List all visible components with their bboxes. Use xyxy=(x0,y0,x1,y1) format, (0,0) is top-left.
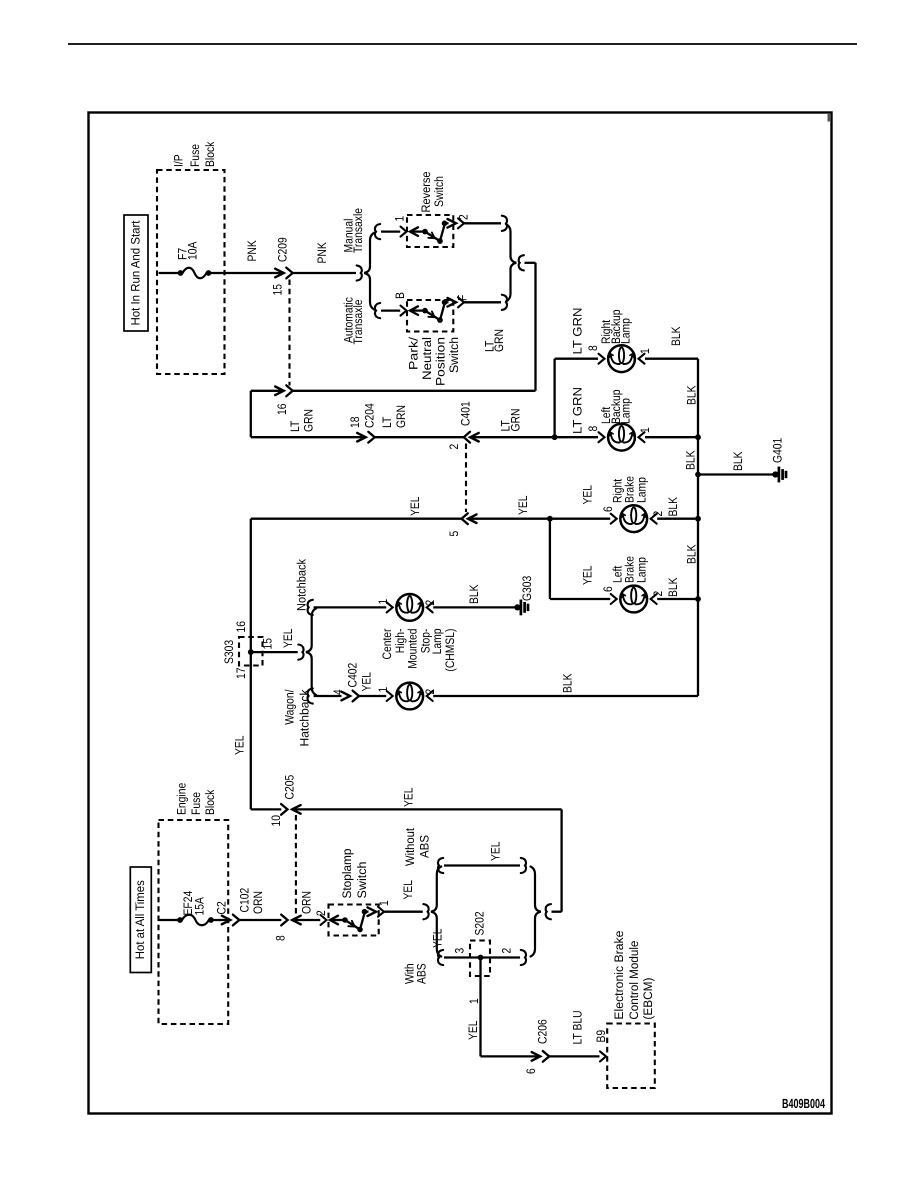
svg-text:YEL: YEL xyxy=(281,628,295,648)
svg-text:1: 1 xyxy=(376,687,390,693)
svg-text:Lamp: Lamp xyxy=(430,628,444,654)
svg-text:Lamp: Lamp xyxy=(619,398,633,424)
svg-text:B409B004: B409B004 xyxy=(782,1096,825,1111)
svg-text:1: 1 xyxy=(393,216,407,222)
svg-text:YEL: YEL xyxy=(581,565,595,585)
svg-text:Park/: Park/ xyxy=(407,336,421,370)
svg-text:2: 2 xyxy=(423,689,437,695)
svg-text:1: 1 xyxy=(467,998,481,1004)
svg-text:Hot In Run And Start: Hot In Run And Start xyxy=(129,220,143,326)
svg-text:YEL: YEL xyxy=(581,485,595,505)
svg-text:YEL: YEL xyxy=(408,496,422,516)
svg-text:6: 6 xyxy=(601,586,615,592)
svg-text:Lamp: Lamp xyxy=(635,557,649,583)
svg-text:G401: G401 xyxy=(771,438,785,463)
svg-text:GRN: GRN xyxy=(509,409,523,432)
svg-text:15: 15 xyxy=(271,284,285,296)
svg-text:Switch: Switch xyxy=(447,337,461,373)
svg-text:Neutral: Neutral xyxy=(420,337,434,380)
svg-text:BLK: BLK xyxy=(669,326,683,346)
svg-text:Control Module: Control Module xyxy=(627,940,641,1019)
svg-text:PNK: PNK xyxy=(245,240,259,262)
svg-text:Without: Without xyxy=(403,827,417,866)
svg-text:C102: C102 xyxy=(238,888,252,913)
svg-text:BLK: BLK xyxy=(666,496,680,516)
svg-text:PNK: PNK xyxy=(315,242,329,264)
svg-text:Switch: Switch xyxy=(355,861,369,898)
svg-text:Lamp: Lamp xyxy=(635,477,649,503)
svg-text:C206: C206 xyxy=(536,1019,550,1044)
svg-text:2: 2 xyxy=(423,600,437,606)
svg-text:Block: Block xyxy=(203,789,217,815)
svg-text:BLK: BLK xyxy=(561,673,575,693)
svg-text:Stoplamp: Stoplamp xyxy=(340,848,354,898)
svg-text:(EBCM): (EBCM) xyxy=(641,978,655,1020)
svg-text:8: 8 xyxy=(586,426,600,432)
svg-text:GRN: GRN xyxy=(302,409,316,432)
svg-text:ORN: ORN xyxy=(251,891,265,914)
svg-text:I/P: I/P xyxy=(172,154,186,167)
svg-text:S202: S202 xyxy=(473,911,487,935)
svg-text:Center: Center xyxy=(380,629,394,660)
svg-text:15A: 15A xyxy=(193,896,207,915)
svg-text:17: 17 xyxy=(234,667,248,679)
svg-text:Engine: Engine xyxy=(175,783,189,815)
svg-text:LT GRN: LT GRN xyxy=(571,308,585,355)
svg-text:2: 2 xyxy=(651,591,665,597)
svg-text:(CHMSL): (CHMSL) xyxy=(443,629,457,672)
svg-text:YEL: YEL xyxy=(431,928,445,948)
svg-text:2: 2 xyxy=(500,948,514,954)
svg-text:C401: C401 xyxy=(459,401,473,426)
svg-text:1: 1 xyxy=(377,900,391,906)
svg-text:Hot at All Times: Hot at All Times xyxy=(133,880,147,959)
svg-text:YEL: YEL xyxy=(401,880,415,900)
svg-text:YEL: YEL xyxy=(233,735,247,755)
svg-text:Switch: Switch xyxy=(432,176,446,207)
svg-text:Transaxle: Transaxle xyxy=(351,299,365,344)
svg-text:Position: Position xyxy=(434,337,448,386)
svg-text:YEL: YEL xyxy=(402,787,416,807)
svg-text:YEL: YEL xyxy=(360,672,374,692)
svg-text:Hatchback: Hatchback xyxy=(298,689,312,747)
svg-text:YEL: YEL xyxy=(489,841,503,861)
svg-text:2: 2 xyxy=(447,444,461,450)
svg-text:Wagon/: Wagon/ xyxy=(283,689,297,725)
svg-text:ABS: ABS xyxy=(415,963,429,984)
svg-text:6: 6 xyxy=(601,506,615,512)
svg-text:BLK: BLK xyxy=(685,385,699,405)
svg-text:16: 16 xyxy=(275,403,289,415)
svg-text:YEL: YEL xyxy=(466,1020,480,1040)
svg-text:LT BLU: LT BLU xyxy=(571,1010,585,1044)
svg-text:G303: G303 xyxy=(520,576,534,601)
svg-text:BLK: BLK xyxy=(684,450,698,470)
svg-text:S303: S303 xyxy=(222,640,236,664)
svg-text:BLK: BLK xyxy=(467,584,481,604)
svg-text:1: 1 xyxy=(638,348,652,354)
svg-text:Notchback: Notchback xyxy=(295,558,309,611)
svg-text:C205: C205 xyxy=(283,775,297,800)
svg-text:10A: 10A xyxy=(186,241,200,260)
svg-text:5: 5 xyxy=(447,531,461,537)
svg-text:1: 1 xyxy=(376,599,390,605)
svg-text:2: 2 xyxy=(651,511,665,517)
svg-text:LT GRN: LT GRN xyxy=(571,387,585,434)
svg-text:6: 6 xyxy=(524,1068,538,1074)
svg-text:Mounted: Mounted xyxy=(406,628,420,668)
svg-text:LT: LT xyxy=(380,416,394,428)
svg-text:1: 1 xyxy=(638,427,652,433)
svg-text:Electronic Brake: Electronic Brake xyxy=(612,930,626,1019)
svg-text:BLK: BLK xyxy=(685,544,699,564)
svg-text:GRN: GRN xyxy=(394,405,408,428)
svg-text:ORN: ORN xyxy=(300,891,314,914)
svg-text:Reverse: Reverse xyxy=(419,171,433,212)
svg-text:BLK: BLK xyxy=(731,451,745,471)
svg-text:ABS: ABS xyxy=(418,835,432,858)
svg-text:Lamp: Lamp xyxy=(619,318,633,344)
svg-text:B9: B9 xyxy=(594,1030,608,1043)
svg-text:8: 8 xyxy=(274,935,288,941)
svg-text:2: 2 xyxy=(457,214,471,220)
svg-text:Block: Block xyxy=(203,141,217,167)
svg-text:Fuse: Fuse xyxy=(188,144,202,167)
svg-text:C209: C209 xyxy=(276,237,290,262)
svg-text:15: 15 xyxy=(261,638,275,650)
svg-text:YEL: YEL xyxy=(516,495,530,515)
svg-text:B: B xyxy=(393,292,407,299)
svg-text:18: 18 xyxy=(348,416,362,428)
svg-text:C204: C204 xyxy=(363,403,377,428)
svg-text:C402: C402 xyxy=(346,663,360,688)
svg-text:GRN: GRN xyxy=(492,329,506,352)
svg-text:8: 8 xyxy=(586,345,600,351)
svg-text:10: 10 xyxy=(269,815,283,827)
svg-text:F: F xyxy=(456,294,470,301)
svg-text:16: 16 xyxy=(234,621,248,633)
svg-text:LT: LT xyxy=(288,420,302,432)
svg-text:4: 4 xyxy=(331,689,345,695)
svg-text:3: 3 xyxy=(453,948,467,954)
svg-text:Fuse: Fuse xyxy=(189,792,203,815)
svg-text:BLK: BLK xyxy=(666,577,680,597)
svg-text:Transaxle: Transaxle xyxy=(351,208,365,253)
svg-text:C2: C2 xyxy=(215,901,229,914)
svg-text:2: 2 xyxy=(314,910,328,916)
